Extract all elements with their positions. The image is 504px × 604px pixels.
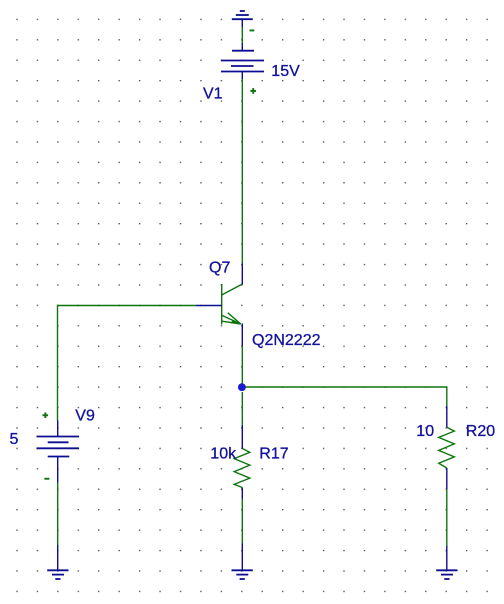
svg-text:10: 10 <box>416 423 434 440</box>
svg-text:V1: V1 <box>203 86 223 103</box>
svg-text:15V: 15V <box>271 63 300 80</box>
svg-text:Q2N2222: Q2N2222 <box>252 332 321 349</box>
svg-text:Q7: Q7 <box>209 260 230 277</box>
svg-text:10k: 10k <box>210 446 237 463</box>
svg-text:V9: V9 <box>75 408 95 425</box>
svg-text:R20: R20 <box>466 423 495 440</box>
svg-text:5: 5 <box>10 431 19 448</box>
svg-text:R17: R17 <box>259 446 288 463</box>
